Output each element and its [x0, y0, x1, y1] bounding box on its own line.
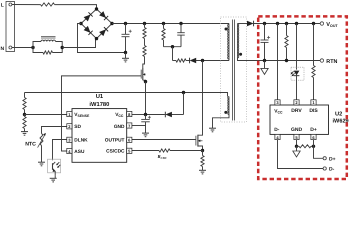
node RTN cap	[263, 59, 266, 62]
terminal L pin	[9, 3, 12, 6]
wire gate from OUTPUT	[132, 139, 196, 141]
node C4 top	[263, 22, 266, 25]
wire tap down	[183, 93, 185, 115]
wire snubber join	[164, 46, 182, 48]
wire VOUT to LED	[296, 24, 298, 70]
label DLNK	[74, 137, 88, 143]
terminal D-	[323, 167, 326, 170]
wire fuse to bridge top	[55, 5, 97, 9]
node R8 D+	[312, 145, 315, 148]
wire CS/CDC pin5	[132, 150, 159, 152]
wire GND pin5 stub	[296, 140, 298, 147]
node RDIS top	[312, 22, 315, 25]
transformer T1 dotted outline	[221, 17, 247, 122]
node Q2 source	[144, 80, 147, 83]
wire diode to VCC	[172, 114, 184, 116]
node snubber bottom	[171, 45, 174, 48]
ground source sense	[199, 170, 206, 174]
wire auxiliary sense line	[25, 93, 228, 97]
resistor R4 clamp	[176, 59, 186, 62]
pin 2 of U2	[294, 100, 299, 105]
diode D6 VCC rectifier	[165, 112, 172, 118]
label RTN	[326, 59, 337, 65]
resistor RCS sense	[201, 156, 204, 167]
wire VCC pin8	[132, 114, 146, 116]
bridge diode D4 (bottom-right)	[99, 27, 108, 36]
svg-text:DLNK: DLNK	[74, 137, 88, 143]
resistor R3 snubber	[162, 29, 165, 41]
label D+ U2	[310, 127, 317, 133]
wire R3 bottom	[163, 40, 165, 47]
wire RD to right node	[53, 48, 63, 53]
svg-text:NTC: NTC	[25, 141, 36, 147]
pin 1 of U2	[311, 100, 316, 105]
pin 6 of U2	[311, 134, 316, 139]
winding auxiliary of T1	[228, 97, 229, 115]
phase dot primary	[225, 28, 228, 31]
optocoupler U3 LED box	[291, 67, 304, 80]
wire to primary ground	[125, 53, 127, 59]
label ASU	[74, 149, 85, 155]
polarity + of C3	[148, 116, 151, 119]
pin 7 of U1	[127, 123, 132, 128]
wire secondary top	[238, 23, 248, 25]
wire R4 to D5	[186, 60, 189, 62]
wire R5 to node	[24, 110, 26, 115]
node V_SENSE	[23, 113, 26, 116]
core of T1	[232, 20, 234, 121]
label D+	[329, 156, 336, 162]
ground secondary U2	[293, 151, 300, 157]
winding primary of T1	[228, 24, 229, 59]
wire snubber to clamp	[172, 47, 174, 61]
label U1	[96, 94, 104, 100]
ground secondary RTN	[261, 68, 268, 74]
wire RTN ground stub	[264, 61, 266, 69]
wire clamp lead	[173, 60, 177, 62]
label SD	[74, 124, 81, 130]
node snubber R top	[162, 22, 165, 25]
svg-text:DRV: DRV	[291, 108, 302, 114]
label VCC U2	[274, 108, 283, 114]
diode D7 output rectifier	[247, 21, 254, 27]
node R7 RTN	[285, 59, 288, 62]
thermistor RT1 NTC	[38, 133, 46, 148]
node filter output	[61, 46, 64, 49]
svg-text:CS/CDC: CS/CDC	[106, 148, 125, 154]
wire GND ground stub	[296, 146, 298, 151]
svg-text:U1: U1	[96, 94, 104, 100]
dashed module boundary (red)	[258, 16, 347, 179]
label iW629	[333, 118, 349, 125]
optocoupler U3 phototransistor	[53, 162, 61, 176]
wire C2 top lead	[180, 24, 182, 33]
wire D- pin4	[278, 140, 324, 169]
wire filter left up	[33, 42, 41, 48]
label GND U2	[291, 127, 303, 133]
wire R2 to Q2 drain	[143, 57, 145, 69]
phase dot auxiliary	[224, 111, 227, 114]
node bridge bottom	[95, 37, 98, 40]
wire R1-R2	[144, 39, 146, 46]
bridge diode D1 (left-top)	[84, 12, 93, 21]
node bridge left	[79, 22, 82, 25]
wire GND pin7	[132, 125, 146, 127]
op-amp U2 iW629 box	[270, 105, 329, 134]
terminal VOUT	[320, 22, 323, 25]
pin 4 of U1	[67, 148, 72, 153]
svg-text:RTN: RTN	[326, 59, 337, 65]
svg-text:GND: GND	[114, 124, 125, 130]
transistor Q1 power MOSFET	[196, 135, 203, 151]
label DRV	[291, 108, 302, 114]
wire DC+ rail	[112, 23, 229, 25]
bridge diode D2 (top-right)	[99, 11, 108, 20]
label D- U2	[274, 127, 279, 133]
label U2	[335, 112, 342, 118]
wire RCS to ground	[202, 167, 204, 171]
svg-text:iW1780: iW1780	[89, 101, 109, 108]
wire R8 right lead	[311, 145, 314, 147]
winding secondary of T1	[238, 24, 239, 59]
node VCC	[144, 113, 147, 116]
capacitor C4 output	[261, 40, 269, 42]
wire VOUT to U2 VCC	[277, 24, 279, 100]
label L	[1, 3, 4, 9]
pin 8 of U1	[127, 111, 132, 116]
wire emitter to ground	[54, 176, 56, 178]
pin 4 of U2	[275, 134, 280, 139]
capacitor C3 VCC	[141, 119, 150, 121]
pin 2 of U1	[67, 124, 72, 129]
terminal N pin	[9, 46, 12, 49]
svg-text:SD: SD	[74, 124, 81, 130]
resistor RDIS	[312, 66, 315, 78]
label N	[1, 46, 5, 52]
svg-text:L: L	[1, 3, 4, 9]
pin 3 of U2	[275, 100, 280, 105]
wire C4 bottom lead	[264, 42, 266, 60]
wire aux bottom to ground	[213, 115, 230, 129]
node bridge right	[110, 22, 113, 25]
wire R7 lead	[286, 24, 288, 36]
wire VOUT rail	[254, 23, 320, 25]
label RCDC	[158, 154, 168, 160]
svg-text:N: N	[1, 46, 5, 52]
svg-text:U2: U2	[335, 112, 342, 118]
pin 1 of U1	[67, 111, 72, 116]
ground NTC	[38, 162, 45, 166]
resistor RCDC	[159, 149, 170, 152]
svg-text:D+: D+	[329, 156, 336, 162]
wire RDIS lead	[313, 24, 315, 66]
wire D5 to primary bottom	[196, 60, 229, 62]
label D-	[329, 167, 335, 173]
label OUTPUT	[105, 137, 125, 143]
capacitor C2 snubber	[177, 33, 185, 35]
wire bridge minus rail	[78, 24, 126, 53]
wire LED to DRV	[296, 75, 298, 100]
ground IC VCC	[142, 133, 149, 137]
ground opto	[50, 178, 57, 182]
pin 6 of U1	[127, 137, 132, 142]
wire to IC ground	[145, 126, 147, 134]
wire C1 bottom lead	[125, 37, 127, 53]
node C1 bottom	[124, 51, 127, 54]
ground auxiliary	[209, 128, 216, 132]
wire VCC cap lead	[145, 115, 147, 120]
op-amp U1 iW1780 box	[72, 109, 127, 163]
transistor Q2 startup FET	[141, 68, 145, 82]
node drain top	[201, 59, 204, 62]
label VCC U1	[115, 112, 124, 118]
wire N to filter	[12, 47, 33, 49]
wire VSENSE pin1	[25, 114, 67, 116]
node bridge top	[95, 7, 98, 10]
phase dot secondary	[239, 53, 242, 56]
ground divider	[21, 132, 28, 136]
label NTC	[25, 141, 36, 147]
pin 3 of U1	[67, 137, 72, 142]
pin 5 of U2	[294, 134, 299, 139]
resistor RF (fusible)	[41, 3, 55, 6]
wire C1 top lead	[125, 24, 127, 35]
node VCC diode tap	[182, 91, 185, 94]
polarity + of C1	[129, 30, 132, 33]
wire R6 lead	[24, 115, 26, 117]
pin 5 of U1	[127, 148, 132, 153]
capacitor C1 bulk	[122, 34, 130, 36]
terminal RTN	[320, 59, 323, 62]
wire divider top	[24, 93, 26, 98]
resistor R7 bleeder	[285, 36, 288, 48]
bridge diode D3 (left-bottom)	[84, 26, 93, 35]
wire D+ pin6	[314, 140, 324, 159]
wire filter left down	[33, 48, 43, 53]
wire L to fuse resistor	[12, 4, 41, 6]
resistor R5 divider upper	[23, 98, 26, 110]
node LED tap	[295, 22, 298, 25]
wire R7 bottom	[286, 48, 288, 61]
label VSENSE	[74, 112, 90, 118]
node snubber C top	[179, 22, 182, 25]
resistor R1 startup	[143, 28, 146, 39]
wire drain node	[198, 61, 203, 136]
wire secondary bottom to RTN	[238, 58, 321, 61]
input terminal block J1	[6, 2, 15, 52]
label DIS	[309, 108, 318, 114]
node R7 top	[285, 22, 288, 25]
node startup chain top	[143, 22, 146, 25]
wire source lead	[202, 151, 204, 156]
wire C4 top lead	[264, 24, 266, 41]
wire R8 left lead	[297, 145, 300, 147]
label CS/CDC	[106, 148, 125, 154]
wire C3 bottom	[145, 122, 147, 126]
core lines of LF	[41, 36, 56, 38]
inductor LF filter choke	[41, 40, 56, 41]
svg-text:GND: GND	[291, 127, 303, 133]
wire N to bridge bottom	[62, 39, 96, 48]
node Q1 source	[201, 149, 204, 152]
wire chain lead	[144, 24, 146, 28]
wire ASU gate line	[62, 76, 142, 151]
wire C2 bottom lead	[180, 35, 182, 47]
svg-text:D+: D+	[310, 127, 317, 133]
svg-text:D-: D-	[274, 127, 279, 133]
svg-text:OUTPUT: OUTPUT	[105, 137, 125, 143]
optocoupler U3 LED	[291, 71, 300, 77]
svg-text:ASU: ASU	[74, 149, 85, 155]
node C1 top	[124, 22, 127, 25]
node VCC2 tap	[276, 22, 279, 25]
node N junction	[31, 46, 34, 49]
wire DLNK pin3	[53, 140, 67, 161]
resistor R8 D+ pulldown	[299, 145, 311, 148]
terminal D+	[323, 157, 326, 160]
svg-text:D-: D-	[329, 167, 335, 173]
wire RDIS to DIS	[313, 78, 315, 100]
label VOUT	[326, 22, 338, 28]
resistor RD damping	[43, 51, 53, 54]
wire R3 lead	[163, 24, 165, 29]
node GND net	[295, 145, 298, 148]
resistor R6 divider lower	[23, 117, 26, 129]
label GND U1	[114, 124, 125, 130]
wire rail to primary top	[228, 23, 230, 26]
wire NTC to ground	[41, 146, 43, 163]
optocoupler U3 phototransistor box	[48, 159, 61, 173]
wire RCDC to source	[170, 150, 203, 152]
svg-text:DIS: DIS	[309, 108, 318, 114]
bridge BR1 outline	[81, 9, 112, 39]
polarity + of C4	[267, 36, 270, 39]
wire Q2 source to VCC	[145, 82, 147, 115]
diode D5 clamp	[190, 58, 197, 64]
resistor R2 startup	[143, 46, 146, 57]
wire SD pin2	[42, 127, 67, 134]
wire D6 to VCC node	[146, 114, 165, 116]
ground primary (bulk)	[122, 58, 129, 62]
wire filter right down	[56, 42, 63, 48]
label iW1780	[89, 101, 109, 108]
wire primary bottom	[228, 59, 230, 61]
wire R6 to ground	[24, 129, 26, 132]
